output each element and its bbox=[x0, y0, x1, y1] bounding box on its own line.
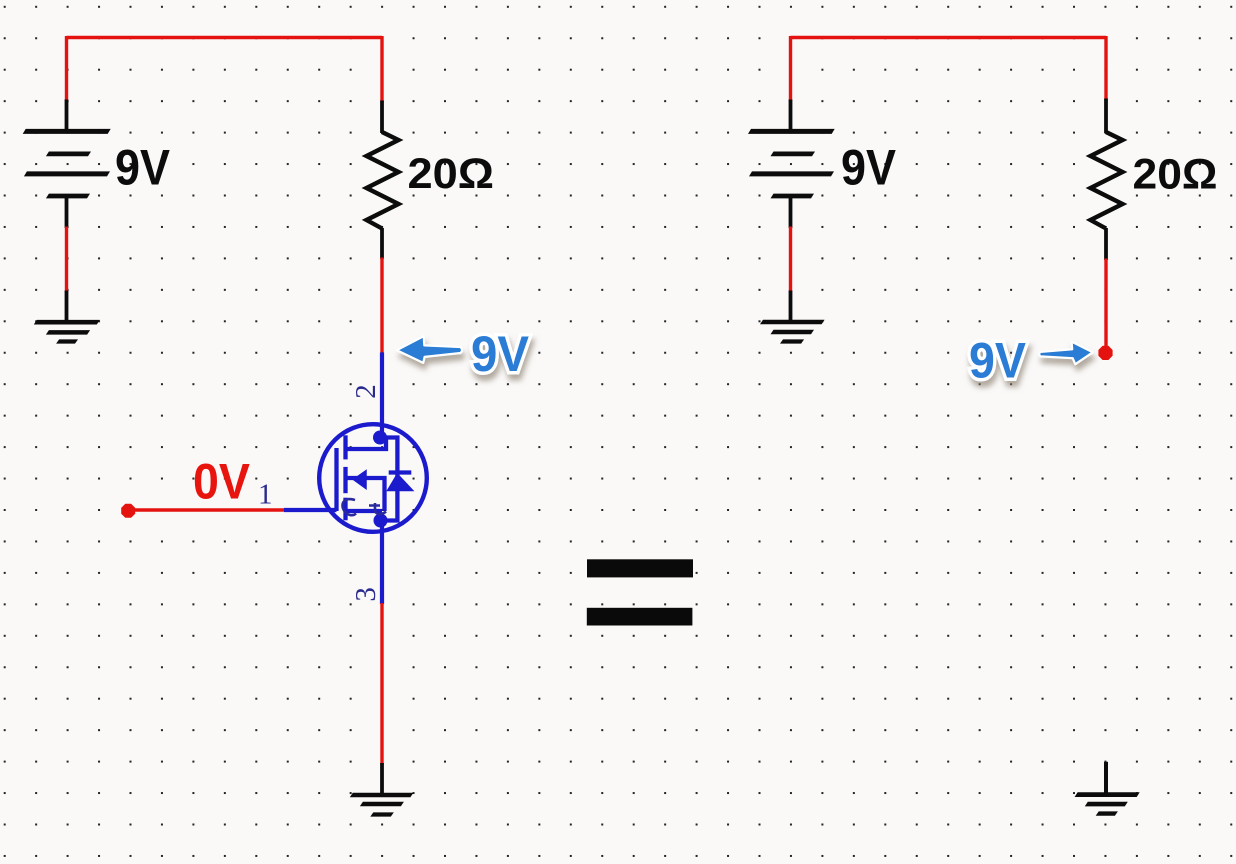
wire: right resistor top red bbox=[1104, 36, 1107, 100]
resistor R1 20 ohm (left) zigzag bbox=[367, 132, 399, 229]
battery V2 9V (right) bbox=[748, 129, 835, 199]
wire: right resistor bottom red to open node bbox=[1104, 259, 1107, 353]
svg-text:9V: 9V bbox=[969, 333, 1027, 389]
Q1 gate bar bbox=[334, 448, 338, 511]
Q1 substrate line bbox=[346, 478, 385, 511]
wire: right battery top stub black bbox=[789, 100, 793, 132]
Q1 channel segment top bbox=[343, 435, 347, 459]
wire: right battery top vertical red bbox=[789, 36, 792, 101]
ground (floating, bottom right) bbox=[1075, 792, 1140, 816]
wire: left resistor top stub black bbox=[380, 101, 384, 134]
Q1 source junction dot bbox=[374, 514, 388, 528]
wire: right battery ground stub black bbox=[789, 291, 793, 321]
Q1 circle body bbox=[319, 424, 427, 532]
wire: left battery top vertical red bbox=[65, 36, 68, 101]
wire: left battery bottom red bbox=[65, 227, 68, 293]
svg-text:20Ω: 20Ω bbox=[1133, 152, 1218, 199]
svg-text:9V: 9V bbox=[841, 140, 897, 196]
svg-text:0V: 0V bbox=[193, 454, 251, 510]
svg-text:20Ω: 20Ω bbox=[408, 151, 495, 198]
wire: right battery bottom stub black bbox=[789, 196, 793, 228]
svg-text:9V: 9V bbox=[115, 140, 171, 196]
svg-text:9V: 9V bbox=[471, 326, 530, 382]
Q1 channel segment middle bbox=[343, 467, 347, 493]
wire: left battery bottom stub black bbox=[65, 196, 69, 228]
ground (left battery) bbox=[34, 320, 100, 344]
wire: right top horizontal bbox=[791, 36, 1107, 39]
Q1 body diode branch bbox=[380, 438, 397, 521]
equals sign bar top bbox=[587, 559, 693, 577]
Q1 source horizontal bbox=[346, 509, 383, 513]
wire: gate red wire bbox=[128, 508, 285, 511]
wire: blue drain wire into transistor bbox=[380, 352, 384, 437]
wire: left resistor bottom stub black bbox=[380, 228, 384, 259]
battery V1 9V (left) bbox=[23, 129, 111, 199]
svg-text:2: 2 bbox=[350, 384, 382, 399]
wire: right resistor bottom stub black bbox=[1104, 228, 1108, 260]
Q1 channel segment bottom bbox=[343, 498, 347, 521]
Q1 thin glyph curl left bbox=[342, 499, 356, 515]
wire: left battery top stub black bbox=[65, 100, 69, 132]
wire: left top horizontal (battery V1 plus to resistor R1) bbox=[67, 36, 383, 39]
Q1 body diode triangle bbox=[388, 475, 412, 491]
ground (floating, bottom right) stub bbox=[1104, 762, 1108, 793]
transistor Q1 NMOS MOSFET bbox=[319, 424, 427, 532]
wire: left resistor bottom red down to drain node bbox=[380, 258, 383, 353]
svg-text:3: 3 bbox=[350, 587, 382, 602]
wire: blue source wire bbox=[380, 521, 384, 605]
annotation: 9V label with arrow at open node (right) bbox=[969, 333, 1093, 389]
wire: source ground stub black bbox=[380, 763, 384, 793]
wire: left battery ground stub black bbox=[65, 291, 69, 322]
node: open output node dot (right) bbox=[1098, 346, 1112, 360]
Q1 thin glyph curl right bbox=[369, 503, 386, 514]
svg-text:1: 1 bbox=[258, 479, 273, 511]
Q1 drain hook bbox=[346, 438, 387, 449]
equals sign bar bottom bbox=[587, 608, 693, 626]
ground (right battery) bbox=[760, 320, 825, 344]
node: gate terminal dot bbox=[121, 504, 135, 518]
Q1 substrate arrow head bbox=[354, 471, 367, 489]
wire: left resistor top red bbox=[380, 36, 383, 102]
wire: source red wire down bbox=[380, 603, 383, 765]
wire: right battery bottom red bbox=[789, 227, 792, 293]
Q1 drain junction dot bbox=[373, 431, 387, 445]
ground (under source) bbox=[350, 793, 414, 817]
resistor R2 20 ohm (right) zigzag bbox=[1091, 132, 1123, 229]
wire: gate blue segment bbox=[284, 508, 337, 512]
wire: right resistor top stub black bbox=[1104, 99, 1108, 134]
Q1 body diode cathode bar bbox=[389, 470, 412, 474]
annotation: 9V label with arrow at drain node (left) bbox=[397, 326, 530, 382]
